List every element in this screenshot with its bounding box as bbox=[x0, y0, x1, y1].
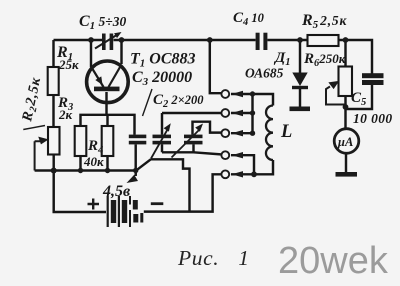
wire left rail between R1 and R2 bbox=[52, 95, 54, 127]
value label D1 bbox=[245, 50, 291, 81]
wire R3 bottom lead bbox=[79, 156, 81, 171]
resistor R3 bbox=[75, 126, 87, 156]
wire R4 top lead bbox=[106, 115, 108, 126]
node collector-top bbox=[119, 37, 125, 43]
wire switch row3 tail bbox=[231, 132, 253, 134]
node R2 bottom bbox=[51, 168, 57, 174]
resistor R2 potentiometer bbox=[48, 127, 60, 155]
switch arrow row5 bbox=[232, 171, 243, 177]
value label T1 bbox=[130, 51, 196, 70]
wire meter bottom lead bbox=[345, 154, 347, 173]
svg-text:C3 20000: C3 20000 bbox=[132, 69, 192, 88]
node tap junction bbox=[133, 168, 138, 173]
node D1-top bbox=[297, 37, 303, 43]
wire top rail left segment bbox=[54, 39, 103, 41]
value label R6 bbox=[303, 51, 346, 69]
battery B1 plates bbox=[107, 196, 144, 227]
wire top rail right segment bbox=[268, 40, 373, 74]
node R3 bottom bbox=[78, 168, 83, 173]
svg-text:2к: 2к bbox=[58, 107, 73, 122]
capacitor C1 trimmer plates bbox=[102, 34, 113, 51]
wire C2 wiper rail bbox=[151, 159, 190, 210]
wire base lead bbox=[105, 92, 107, 115]
wire emitter branch vertical bbox=[90, 40, 92, 67]
wire C2a bottom lead bbox=[161, 144, 163, 152]
svg-text:20wek: 20wek bbox=[278, 240, 389, 282]
value label C2 bbox=[153, 92, 204, 110]
battery plus sign bbox=[88, 199, 100, 210]
capacitor C1 trimmer arrow bbox=[95, 35, 117, 48]
wire R4 bottom lead bbox=[106, 156, 108, 171]
wire base staple bbox=[81, 115, 135, 135]
svg-text:4,5в: 4,5в bbox=[102, 183, 130, 200]
node bus row1 bbox=[250, 91, 255, 96]
resistor R6 potentiometer bbox=[339, 67, 353, 97]
capacitor C3 plates bbox=[129, 135, 147, 145]
node R5-R6 bbox=[343, 37, 349, 43]
switch arrow row1 bbox=[232, 91, 243, 97]
wire wiper rail diagonal to tap junction bbox=[137, 159, 151, 170]
switch arrow row2 bbox=[232, 110, 243, 116]
R6 wiper arrow bbox=[326, 82, 346, 105]
svg-text:25к: 25к bbox=[58, 57, 79, 72]
node contact1-top bbox=[207, 37, 213, 43]
capacitor C5 plates bbox=[362, 73, 384, 85]
resistor R5 bbox=[308, 35, 339, 46]
node bus row3 bbox=[250, 131, 255, 136]
value label R1 bbox=[56, 44, 79, 72]
svg-text:40к: 40к bbox=[83, 154, 104, 169]
capacitor C2 section b plates bbox=[184, 135, 203, 145]
transistor T1 circle bbox=[87, 61, 129, 103]
battery minus sign bbox=[151, 202, 164, 205]
wire left rail bbox=[52, 40, 54, 67]
resistor R1 bbox=[48, 67, 59, 95]
R2 label leader line bbox=[23, 126, 45, 130]
value label R3 bbox=[57, 95, 73, 122]
node row4-row5 bbox=[251, 171, 257, 177]
transistor T1 emitter arrowhead bbox=[95, 76, 102, 85]
switch contact 1 bbox=[221, 90, 229, 98]
wire battery minus to contact 5 bbox=[144, 174, 221, 211]
capacitor C4 plates bbox=[256, 33, 268, 50]
switch contact 3 bbox=[221, 129, 229, 137]
wire C2 bottoms join to contact 4 bbox=[162, 152, 221, 154]
value label C3 bbox=[132, 69, 192, 88]
R2 wiper arrow bbox=[35, 137, 48, 170]
wire switch row2 tail bbox=[231, 112, 253, 114]
wire C2b bottom lead bbox=[192, 144, 194, 152]
resistor R4 bbox=[102, 126, 114, 156]
value label C4 bbox=[233, 10, 265, 28]
capacitor C2 section a arrow bbox=[151, 130, 168, 159]
value label battery 4,5v bbox=[102, 183, 130, 200]
wire top rail middle segment bbox=[114, 39, 256, 41]
wire C3 bottom lead to tap bbox=[134, 145, 136, 177]
switch contact 2 bbox=[221, 109, 229, 117]
svg-text:10 000: 10 000 bbox=[353, 111, 393, 126]
value label L bbox=[280, 122, 292, 142]
svg-text:Рис.1: Рис.1 bbox=[177, 246, 250, 270]
transistor T1 base bar bbox=[94, 87, 120, 92]
battery tap arrow bbox=[135, 171, 137, 176]
wire switch row1 tail to coil top bbox=[231, 94, 273, 106]
wire switch row4 tail bbox=[231, 155, 254, 174]
wire R6 bottom lead to meter bbox=[344, 96, 346, 129]
capacitor C2 section a plates bbox=[153, 135, 172, 145]
node R4 bottom bbox=[105, 168, 110, 173]
wire R6 top lead bbox=[344, 40, 346, 67]
wire C5 bottom to meter junction bbox=[346, 85, 373, 109]
wire C2a top lead bbox=[161, 113, 163, 135]
wire D1 cathode to ground bbox=[299, 89, 301, 107]
ground bar under meter bbox=[336, 172, 358, 177]
svg-text:ОА685: ОА685 bbox=[245, 66, 284, 81]
inductor L coil bbox=[266, 106, 273, 161]
value label R5 bbox=[301, 12, 347, 31]
node meter top bbox=[343, 104, 349, 110]
wire D1 anode lead bbox=[299, 40, 301, 73]
value label C1 bbox=[79, 13, 126, 32]
node bus row2 bbox=[250, 110, 255, 115]
value label R2 rotated bbox=[19, 76, 46, 125]
switch contact 4 bbox=[221, 151, 229, 159]
wire C2 staple to contact 2 bbox=[162, 112, 221, 114]
node emitter-top bbox=[88, 37, 94, 43]
wire C2b top jog to contact 3 bbox=[193, 122, 222, 135]
switch contact 5 bbox=[221, 170, 229, 178]
wire battery plus drop bbox=[54, 171, 106, 213]
value label R4 bbox=[83, 138, 104, 169]
wire contact1 branch bbox=[210, 40, 221, 93]
value label C5 bbox=[351, 90, 393, 126]
diode D1 bbox=[292, 73, 307, 87]
meter uA circle bbox=[334, 129, 359, 154]
ground bar under D1 bbox=[290, 107, 311, 112]
wire switch bus bbox=[251, 94, 253, 133]
capacitor C2 section b arrow bbox=[172, 130, 200, 158]
C3 label leader line bbox=[143, 89, 153, 116]
wire R2 bottom lead bbox=[52, 155, 54, 171]
wire bottom resistor rail bbox=[35, 169, 136, 171]
transistor T1 collector bbox=[109, 65, 122, 88]
svg-text:L: L bbox=[280, 122, 292, 142]
switch arrow row3 bbox=[232, 130, 243, 136]
wire collector branch vertical bbox=[120, 40, 122, 64]
switch arrow row4 bbox=[232, 152, 243, 158]
transistor T1 emitter bbox=[91, 67, 104, 88]
wire switch row5 tail to coil bottom bbox=[231, 160, 273, 174]
svg-text:µА: µА bbox=[337, 135, 354, 149]
